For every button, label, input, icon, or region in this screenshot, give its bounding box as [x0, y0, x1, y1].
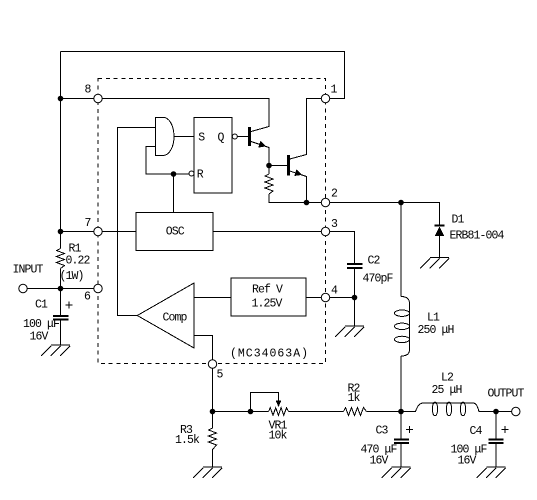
pin 5 circle: [208, 360, 216, 368]
svg-text:S: S: [198, 132, 205, 145]
resistor R1 0.22 ohm zigzag: [57, 249, 65, 269]
potentiometer VR1 wiper loop: [251, 393, 279, 412]
node junction VR1 wiper tap: [248, 409, 254, 415]
wire pin8 to left bus: [61, 98, 94, 100]
svg-text:1: 1: [331, 84, 338, 97]
wire input rail to pin6: [27, 288, 94, 290]
svg-text:5: 5: [217, 369, 224, 382]
svg-text:C2: C2: [368, 255, 381, 268]
node junction L1 / C3 / L2: [398, 409, 404, 415]
wire pin8 internal rail to Q1 collector: [102, 99, 269, 132]
ground below pin4: [335, 326, 364, 337]
pin 1 circle: [321, 94, 329, 102]
transistor Q1 base bar: [248, 127, 251, 146]
svg-text:OSC: OSC: [166, 226, 185, 239]
inductor L2 spine: [401, 403, 512, 412]
transistor Q2 emitter wire: [290, 171, 307, 203]
wire pin1 internal to Q2 collector: [290, 99, 322, 160]
pin 2 circle: [321, 198, 329, 206]
pin 4 circle: [321, 293, 329, 301]
terminal OUTPUT circle: [512, 407, 520, 415]
svg-text:470pF: 470pF: [363, 273, 394, 286]
svg-text:OUTPUT: OUTPUT: [488, 388, 525, 401]
transistor Q2 emitter arrow: [294, 170, 302, 177]
node junction pin4 / C2 / ground: [352, 295, 358, 301]
node junction left bus / pin8: [58, 96, 64, 102]
wire Q output to Q1 base: [237, 136, 248, 138]
transistor Q2 base bar: [287, 155, 290, 176]
svg-text:4: 4: [331, 285, 338, 298]
wire AND gate top input from comparator output: [118, 128, 156, 316]
wire comparator plus input to Ref V: [194, 297, 231, 299]
capacitor C2 plates: [347, 264, 363, 268]
wire pin5 down to feedback rail: [212, 368, 214, 411]
wire AND gate output to S input: [174, 136, 194, 138]
node junction L2 / C4 / output: [493, 409, 499, 415]
svg-text:16V: 16V: [30, 331, 49, 344]
reference voltage box Ref V: [231, 278, 306, 316]
C3 polarity plus sign: [406, 426, 413, 433]
pin 3 circle: [321, 227, 329, 235]
diode D1 anode wire: [439, 236, 441, 257]
svg-text:C1: C1: [35, 299, 48, 312]
flip-flop box U1b: [194, 118, 232, 194]
node junction pin5 / R3 / rail: [210, 409, 216, 415]
diode D1 cathode bar: [435, 225, 445, 227]
inductor L1 loop 1: [395, 310, 410, 316]
Q output bubble: [232, 134, 237, 139]
wire top rail from left vertical to pin1: [61, 52, 345, 99]
wire pin7 to OSC: [102, 231, 136, 233]
inductor L2 loop 2: [446, 402, 451, 416]
ground below R3: [193, 467, 222, 478]
wire Q2 base: [269, 165, 287, 167]
svg-text:Q: Q: [218, 132, 225, 145]
svg-text:250 μH: 250 μH: [418, 324, 454, 337]
wire VR1 to R2: [289, 411, 344, 413]
node junction input rail / C1 / R1: [58, 286, 64, 292]
wire resistor bottom to pin2 line: [269, 194, 321, 203]
svg-text:6: 6: [84, 291, 91, 304]
pin 8 circle: [94, 94, 102, 102]
wire pin4 external: [330, 298, 355, 326]
transistor Q1 emitter arrow: [258, 141, 266, 148]
resistor internal emitter zigzag: [265, 174, 273, 194]
svg-text:10k: 10k: [269, 430, 288, 443]
svg-text:8: 8: [85, 84, 92, 97]
wire R2 to C3 node: [367, 411, 416, 413]
capacitor C4 wires: [495, 412, 497, 467]
inductor L1 loop 2: [395, 323, 410, 329]
IC boundary dashed box MC34063A: [98, 79, 326, 364]
svg-text:INPUT: INPUT: [13, 264, 44, 277]
svg-text:D1: D1: [452, 214, 465, 227]
node junction Q2 emitter / pin2: [304, 200, 310, 206]
pin 7 circle: [94, 227, 102, 235]
ground below D1: [420, 258, 449, 269]
svg-text:16V: 16V: [370, 455, 389, 468]
capacitor C4 plates: [489, 440, 504, 443]
svg-text:Ref V: Ref V: [252, 284, 283, 297]
ground below C4: [477, 467, 506, 478]
wire L1 top from pin2 junction: [400, 203, 402, 297]
wire pin2 external to D1 corner: [330, 203, 440, 225]
AND gate U1a body: [155, 117, 174, 155]
svg-text:1.25V: 1.25V: [252, 298, 283, 311]
terminal INPUT circle: [19, 284, 27, 292]
svg-text:1.5k: 1.5k: [175, 434, 200, 447]
inductor L2 loop 3: [460, 402, 465, 416]
node junction left bus / pin7: [58, 229, 64, 235]
wire left vertical bus: [60, 52, 62, 289]
wire comparator minus input to pin5: [194, 336, 213, 360]
svg-text:3: 3: [331, 218, 338, 231]
transistor Q1 collector wire: [251, 127, 269, 132]
resistor R2 zigzag: [344, 408, 367, 416]
node junction pin2 wire / L1: [398, 200, 404, 206]
ground below C3: [382, 467, 411, 478]
diode D1 triangle: [435, 227, 445, 237]
wire junction down to OSC box: [173, 174, 175, 213]
capacitor C3 plates: [394, 440, 409, 443]
svg-text:C4: C4: [470, 425, 483, 438]
wire feedback rail to VR1: [213, 411, 269, 413]
potentiometer VR1 wiper arrow: [276, 401, 282, 408]
svg-text:ERB81-004: ERB81-004: [450, 230, 505, 243]
svg-text:2: 2: [331, 188, 338, 201]
wire AND gate lower input from oscillator: [146, 147, 189, 175]
transistor Q1 emitter wire: [251, 142, 269, 175]
capacitor C1 plates: [53, 316, 69, 320]
svg-text:(MC34063A): (MC34063A): [230, 348, 309, 361]
svg-text:Comp: Comp: [163, 312, 188, 325]
C1 polarity plus sign: [65, 302, 72, 309]
inductor L2 loop 1: [432, 402, 437, 416]
svg-text:1k: 1k: [348, 392, 361, 405]
resistor R3 zigzag: [209, 412, 217, 467]
svg-text:(1W): (1W): [60, 270, 84, 283]
wire OSC to pin3: [213, 231, 321, 233]
wire C2 bottom to pin4 node: [354, 269, 356, 298]
svg-text:16V: 16V: [458, 455, 477, 468]
capacitor C1 wires: [60, 289, 62, 345]
R input bubble: [189, 171, 194, 176]
capacitor C3 wires: [400, 412, 402, 467]
inductor L1 coil spine: [401, 297, 410, 357]
svg-text:100 μF: 100 μF: [23, 318, 60, 331]
comparator triangle: [137, 283, 194, 348]
svg-text:C3: C3: [376, 425, 389, 438]
svg-text:0.22: 0.22: [66, 255, 91, 268]
node junction R-input wire to OSC top: [171, 171, 177, 177]
node junction Q1 emitter / Q2 base: [266, 163, 272, 169]
potentiometer VR1 zigzag: [269, 408, 289, 416]
wire pin3 external to C2: [330, 232, 355, 264]
svg-text:R: R: [197, 169, 204, 182]
C4 polarity plus sign: [502, 426, 509, 433]
inductor L1 loop 3: [395, 336, 410, 342]
svg-text:L2: L2: [441, 372, 454, 385]
svg-text:L1: L1: [427, 312, 440, 325]
svg-text:25 μH: 25 μH: [432, 384, 462, 397]
ground below C1: [41, 345, 70, 357]
wire Ref V to pin4: [306, 297, 321, 299]
svg-text:7: 7: [85, 217, 91, 230]
oscillator box OSC: [136, 213, 213, 251]
pin 6 circle: [94, 284, 102, 292]
wire pin7 to left bus: [61, 231, 94, 233]
wire L1 bottom to output rail: [400, 356, 402, 412]
